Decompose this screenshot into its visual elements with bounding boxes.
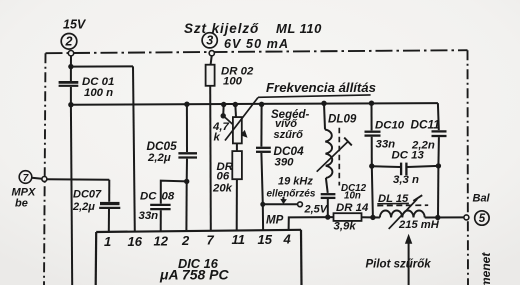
svg-text:2: 2 [181, 233, 190, 248]
DL15 label underline [377, 202, 409, 204]
capacitor DC11 [432, 130, 447, 132]
wire 15V to pin16 horizontal [71, 65, 133, 67]
wire DC12 bottom [327, 199, 329, 217]
svg-text:20k: 20k [212, 182, 233, 194]
DL09 core dashed [338, 128, 340, 186]
wire wiper stub [222, 105, 225, 116]
capacitor DC05 [178, 152, 197, 154]
svg-text:Pilot szűrők: Pilot szűrők [366, 258, 432, 270]
wire DL09 to DC12 [326, 178, 328, 193]
svg-text:ellenőrzés: ellenőrzés [267, 188, 316, 199]
svg-text:DR 14: DR 14 [336, 202, 369, 214]
wire DR14 to DL15 [362, 216, 380, 218]
wire DC04 top [260, 104, 262, 146]
resistor DR06 [232, 151, 242, 179]
resistor DR14 [334, 213, 362, 221]
node wiper [221, 113, 226, 118]
svg-text:7: 7 [207, 233, 215, 248]
node pin2 junction [184, 179, 189, 184]
wire MP testpoint [263, 203, 298, 205]
wire ground drop [71, 105, 72, 285]
wire DC13 left [372, 165, 400, 168]
svg-text:DC 13: DC 13 [392, 149, 425, 161]
MP terminal circle [298, 202, 303, 207]
node junction 15V [68, 64, 73, 69]
node 2 terminal circle [68, 51, 73, 56]
svg-text:08: 08 [162, 191, 175, 203]
DL09 adjust bar [344, 138, 352, 146]
svg-text:3,9k: 3,9k [334, 220, 357, 232]
node 5 terminal circle [464, 215, 469, 220]
svg-text:19 kHz: 19 kHz [278, 176, 313, 188]
wire DC10 top [371, 103, 373, 130]
capacitor DC01 [59, 81, 79, 84]
svg-text:4: 4 [283, 232, 292, 247]
node DL15 left [370, 215, 375, 220]
wire MPX horizontal [47, 178, 109, 181]
connector circle 3 [202, 33, 217, 48]
svg-text:DC11: DC11 [411, 117, 440, 131]
svg-text:ML 110: ML 110 [276, 21, 322, 36]
node DC12-pin4 [325, 214, 330, 219]
IC U1 box left [95, 232, 98, 285]
wire pin12 [160, 210, 162, 231]
node bus-DC01 [68, 102, 73, 107]
svg-text:1: 1 [104, 234, 111, 249]
capacitor DC13 [400, 163, 402, 176]
resistor DR02 [206, 65, 215, 86]
svg-text:06: 06 [217, 171, 230, 183]
border dash-dot left [44, 53, 46, 285]
wire DC05 bottom [186, 159, 188, 182]
svg-text:2,5V: 2,5V [304, 203, 329, 215]
inductor DL09 [325, 130, 332, 178]
svg-text:100: 100 [223, 75, 243, 87]
node bus-wiper [221, 102, 226, 107]
svg-text:15: 15 [258, 232, 273, 247]
svg-text:DC: DC [140, 191, 157, 203]
svg-text:be: be [15, 197, 28, 209]
wire 15V down [70, 56, 72, 67]
svg-text:MP: MP [266, 214, 284, 226]
capacitor DC08 [150, 204, 170, 206]
wire pin16 vertical [133, 66, 135, 231]
node DC13 left [369, 163, 374, 168]
svg-text:szűrő: szűrő [274, 129, 304, 141]
wire DC13 node down [437, 166, 439, 218]
connector circle 7 [19, 171, 32, 184]
IC U1 box top [96, 230, 301, 232]
svg-text:DC10: DC10 [375, 120, 405, 132]
wiper arrowhead [240, 130, 247, 138]
node bus-DC10 [369, 101, 374, 106]
wire pin2 [185, 181, 187, 231]
wire DC01 to bus [70, 87, 72, 105]
underline Frekvencia [258, 95, 371, 97]
wire pin1 [108, 209, 110, 232]
svg-text:7: 7 [23, 173, 29, 184]
wire pot top [234, 105, 237, 118]
node MP junction [260, 202, 265, 207]
svg-text:DL 15: DL 15 [378, 193, 409, 205]
wire DR02 to pin7 [209, 86, 212, 231]
capacitor DC07 plus plate [100, 202, 120, 205]
svg-text:2,2μ: 2,2μ [72, 201, 95, 213]
DL15 adjust bar [413, 195, 422, 201]
svg-text:390: 390 [275, 156, 295, 168]
node 7 terminal circle [42, 177, 47, 182]
wire DC10 bottom [371, 137, 373, 166]
svg-text:33n: 33n [139, 210, 159, 222]
wire DC05 top [186, 104, 188, 152]
node bus-DC04 [259, 102, 264, 107]
wire DC07 top [108, 180, 110, 202]
wire pot to DR06 [236, 143, 238, 151]
border dash-dot top [46, 50, 468, 53]
capacitor DC12 [321, 193, 336, 195]
svg-text:menet: menet [479, 252, 493, 285]
leader line frequency [225, 98, 258, 141]
svg-text:Bal: Bal [473, 192, 491, 204]
svg-text:5: 5 [479, 213, 486, 225]
connector circle 2 [61, 34, 77, 50]
wiper arrow line [223, 116, 243, 134]
wire node to DL15 left [372, 166, 373, 217]
DL15 core dashed [377, 204, 428, 206]
ground bus [71, 103, 438, 105]
node DL15-DC11 [435, 215, 440, 220]
svg-text:11: 11 [232, 232, 246, 247]
svg-text:3,3 n: 3,3 n [393, 174, 419, 186]
wire node3 down [211, 56, 212, 65]
wire pin15 [262, 204, 264, 230]
node bus-pot [233, 102, 238, 107]
wire to DC01 [70, 67, 72, 81]
svg-text:12: 12 [154, 233, 169, 248]
svg-text:15V: 15V [63, 18, 87, 32]
pointer arrow 19kHz [282, 197, 284, 200]
wire DC11 bottom [437, 137, 440, 166]
node 3 terminal circle [209, 51, 214, 56]
wire DC13 right [408, 166, 439, 167]
DL15 adjust arrow [389, 199, 418, 229]
svg-text:3: 3 [206, 34, 213, 48]
svg-text:Szt kijelző: Szt kijelző [184, 21, 259, 36]
DL09 adjust arrow [317, 142, 348, 172]
IC U1 box right [300, 230, 303, 285]
svg-text:6V 50 mA: 6V 50 mA [224, 37, 289, 51]
svg-text:2,2μ: 2,2μ [147, 152, 171, 164]
node bus-DL09 [321, 101, 326, 106]
svg-text:μA 758 PC: μA 758 PC [159, 266, 230, 282]
svg-text:2: 2 [65, 35, 73, 49]
wire DL15 right [425, 216, 464, 218]
capacitor DC04 [256, 147, 271, 149]
connector circle 5 [475, 211, 489, 225]
inductor DL15 [380, 210, 425, 217]
svg-text:100 n: 100 n [84, 87, 113, 99]
capacitor DC10 [365, 131, 381, 133]
svg-text:DL09: DL09 [328, 113, 357, 126]
wire DL09 top [324, 103, 325, 129]
svg-text:k: k [214, 131, 221, 143]
pilot filter arrow [408, 242, 410, 285]
wire MPX to border [32, 178, 42, 179]
potentiometer 4.7k [233, 117, 242, 143]
svg-text:16: 16 [128, 234, 143, 249]
svg-text:215 mH: 215 mH [398, 219, 440, 231]
node DC11-DC13 [436, 163, 441, 168]
svg-text:DC07: DC07 [73, 189, 102, 201]
node bus-DC05 [184, 102, 189, 107]
capacitor DC07 minus plate [99, 207, 120, 209]
svg-text:10n: 10n [344, 191, 361, 202]
border dash-dot right [467, 50, 470, 285]
wire to DC08 [161, 181, 187, 204]
wire DC04 bottom [261, 153, 262, 204]
wire pin4 up [289, 217, 334, 230]
wire pin11 [236, 179, 238, 230]
svg-text:Frekvencia állítás: Frekvencia állítás [266, 80, 376, 95]
wire bus corner DC11 [437, 103, 440, 130]
